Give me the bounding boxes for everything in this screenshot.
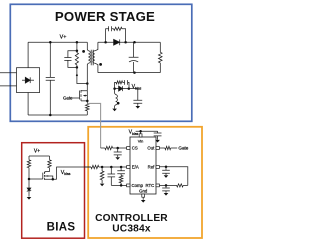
node output cap top xyxy=(133,41,136,44)
aux snubber capacitor xyxy=(123,80,129,89)
bias ground xyxy=(27,197,32,200)
wire aux top xyxy=(115,89,116,95)
bias MOSFET xyxy=(43,172,57,180)
controller ground xyxy=(141,200,146,203)
bridge rectifier box xyxy=(17,68,40,93)
bias resistor right xyxy=(48,156,51,172)
wire CS sense to controller (gray) xyxy=(88,103,101,148)
node aux diode cathode xyxy=(128,87,131,90)
node output diode cathode xyxy=(124,41,127,44)
node snubber drain junction xyxy=(86,82,89,85)
Ref cap ground xyxy=(164,175,169,178)
Ref wire xyxy=(159,167,187,186)
CONTROLLER block border xyxy=(88,127,202,238)
current sense resistor xyxy=(86,101,90,115)
aux phase dot xyxy=(117,102,120,105)
pin stub RTC xyxy=(156,184,159,187)
V+ rail xyxy=(28,41,87,43)
pin stub Gnd xyxy=(142,194,145,197)
bias resistor left xyxy=(27,156,30,179)
wire bridge top to V+ rail xyxy=(27,42,29,67)
AC input line 2 xyxy=(0,85,17,87)
BIAS block border xyxy=(22,143,85,239)
node bulk cap bottom xyxy=(49,114,52,117)
Vbias filter capacitor xyxy=(133,89,142,106)
zener diode xyxy=(27,179,31,197)
svg-text:Vin: Vin xyxy=(138,138,144,143)
wire bias source to Vbias feed xyxy=(57,167,91,179)
transformer primary winding xyxy=(88,51,90,63)
node snubber top xyxy=(76,41,79,44)
node comp RC top xyxy=(120,166,123,169)
node bulk cap top xyxy=(49,41,52,44)
compensation capacitor 1 xyxy=(108,167,116,185)
wire bridge bottom to bottom rail xyxy=(27,93,29,116)
output diode row wire xyxy=(106,41,161,43)
Vin bypass capacitor xyxy=(154,131,162,140)
bulk capacitor xyxy=(46,42,55,115)
divider ground xyxy=(100,184,105,187)
svg-text:Vbias: Vbias xyxy=(132,84,142,90)
RT resistor xyxy=(159,184,187,187)
power MOSFET Q xyxy=(80,90,88,101)
node Ref xyxy=(165,166,168,169)
wire gate label to MOSFET gate xyxy=(72,97,80,99)
node snubber resistor top xyxy=(76,49,79,52)
svg-text:CONTROLLER: CONTROLLER xyxy=(95,213,168,224)
svg-text:Gate: Gate xyxy=(178,146,188,151)
svg-text:V+: V+ xyxy=(60,35,67,41)
pin stub Ref xyxy=(156,166,159,169)
wire aux bottom xyxy=(115,105,116,109)
svg-text:E/A: E/A xyxy=(132,164,139,169)
Gnd wire xyxy=(142,197,144,200)
node comp pin xyxy=(120,184,123,187)
svg-text:Comp: Comp xyxy=(132,183,144,188)
wire secondary bottom xyxy=(95,63,98,72)
output snubber resistor xyxy=(114,27,126,42)
aux diode row wire xyxy=(115,88,138,90)
node bias gate xyxy=(28,178,31,181)
node MOSFET source xyxy=(86,100,89,103)
comp row wire xyxy=(111,184,126,186)
transformer secondary winding xyxy=(93,51,95,63)
feedback wire from Vbias xyxy=(85,166,91,168)
svg-text:Ref: Ref xyxy=(148,164,155,169)
svg-text:CS: CS xyxy=(132,146,138,151)
Vbias rail to Vin xyxy=(136,131,158,134)
node bias source xyxy=(52,178,55,181)
node CS filter xyxy=(116,147,119,150)
node aux diode anode xyxy=(113,87,116,90)
AC input line 1 xyxy=(0,72,17,74)
svg-text:BIAS: BIAS xyxy=(47,222,76,234)
primary phase dot xyxy=(82,50,85,53)
node RTC xyxy=(165,184,168,187)
output bottom rail xyxy=(98,72,160,74)
node output diode anode xyxy=(104,41,107,44)
feedback divider resistor top xyxy=(91,165,127,168)
CS filter resistor xyxy=(101,146,127,149)
aux rectifier diode xyxy=(119,86,123,91)
primary snubber resistor xyxy=(75,42,78,67)
output diode xyxy=(114,39,120,45)
pin stub Comp xyxy=(127,184,130,187)
node snubber mid xyxy=(76,74,78,76)
wire V+ rail to primary xyxy=(87,42,88,51)
CT capacitor xyxy=(162,185,170,192)
UC384x IC body xyxy=(130,137,156,194)
aux snubber resistor xyxy=(115,81,123,89)
svg-text:Vbias: Vbias xyxy=(129,129,139,135)
transformer core xyxy=(91,50,93,66)
node snubber resistor bottom xyxy=(76,66,79,69)
load resistor xyxy=(159,42,163,72)
node comp cap 1 xyxy=(110,166,113,169)
svg-text:Out: Out xyxy=(147,146,155,151)
bridge rectifier diode xyxy=(22,77,34,83)
CT ground xyxy=(164,193,169,196)
POWER STAGE block border xyxy=(10,4,192,121)
output capacitor xyxy=(129,42,139,72)
wire secondary top xyxy=(95,42,106,51)
Ref bypass capacitor xyxy=(162,167,170,175)
node output cap bottom xyxy=(133,71,136,74)
svg-text:RTC: RTC xyxy=(146,183,155,188)
svg-text:V+: V+ xyxy=(34,149,40,155)
svg-text:POWER STAGE: POWER STAGE xyxy=(55,9,155,24)
compensation capacitor 2 xyxy=(117,167,125,175)
pin stub Vin xyxy=(139,134,142,137)
bias V+ rail xyxy=(29,155,50,157)
node Vin xyxy=(139,130,142,133)
primary snubber capacitor xyxy=(64,51,77,68)
output snubber capacitor xyxy=(106,26,114,42)
wire snubber to drain node xyxy=(77,67,87,83)
svg-text:Gnd: Gnd xyxy=(139,188,148,193)
wire bias gate xyxy=(29,178,43,180)
bottom rail xyxy=(28,114,87,116)
svg-text:UC384x: UC384x xyxy=(112,223,151,234)
pin stub CS xyxy=(127,147,130,150)
pin stub EA xyxy=(127,166,130,169)
pin stub Out xyxy=(156,147,159,150)
secondary phase dot xyxy=(99,63,102,66)
aux ground xyxy=(112,109,117,112)
CS filter capacitor xyxy=(114,148,122,157)
Vbias cap ground xyxy=(136,106,141,109)
node divider xyxy=(101,166,104,169)
CS cap ground xyxy=(115,157,120,160)
feedback divider resistor bottom xyxy=(100,167,104,183)
Vin cap ground xyxy=(155,140,160,143)
auxiliary winding xyxy=(116,95,118,105)
wire primary bottom to MOSFET drain xyxy=(87,63,88,91)
Out gate resistor xyxy=(159,146,177,149)
svg-text:Vbias: Vbias xyxy=(61,170,71,176)
compensation resistor xyxy=(119,175,123,185)
